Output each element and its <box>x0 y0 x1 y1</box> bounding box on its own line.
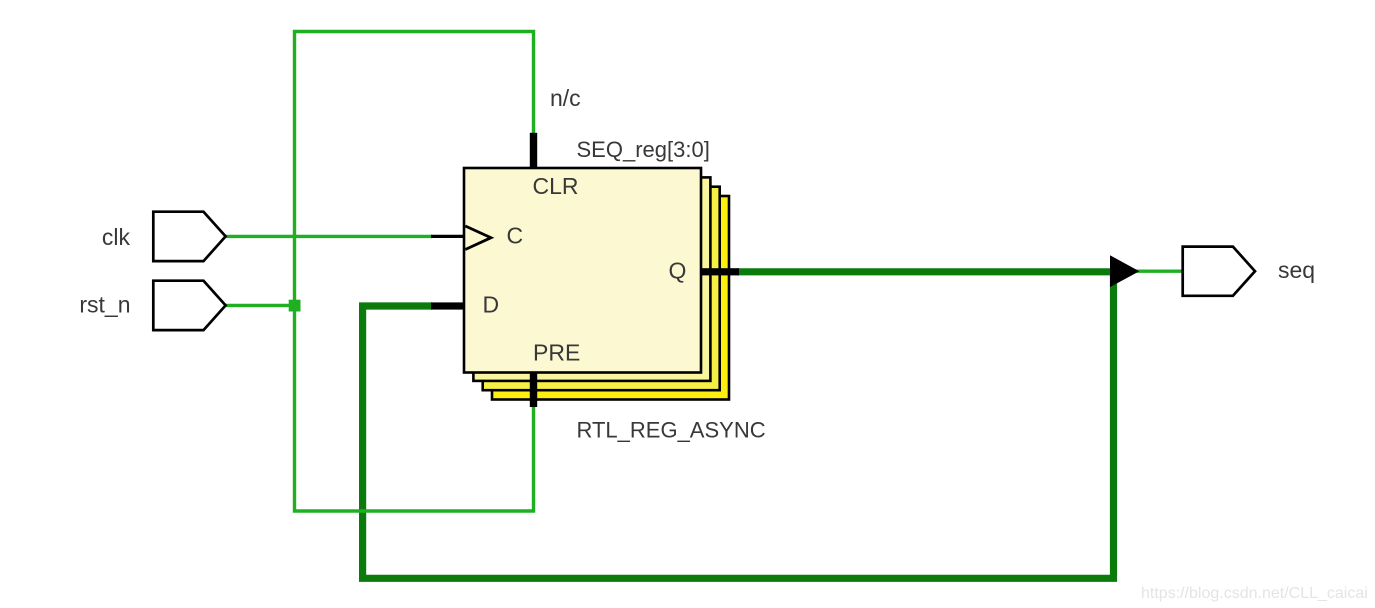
svg-text:CLR: CLR <box>533 173 579 199</box>
pin stub Q <box>700 268 739 275</box>
node junction rst_n <box>289 300 301 312</box>
output port seq <box>1183 247 1255 296</box>
input port clk <box>153 212 225 261</box>
pin stub D <box>431 302 465 309</box>
wire: seq arrow to port <box>1130 270 1182 273</box>
register stack layer 3 <box>483 187 720 391</box>
wire: rst_n port to junction <box>225 304 294 307</box>
svg-text:C: C <box>507 223 524 249</box>
register stack layer 4 (back) <box>492 196 729 400</box>
svg-text:clk: clk <box>102 224 131 250</box>
pin stub PRE <box>530 372 537 407</box>
arrow head seq <box>1110 255 1139 287</box>
register stack layer 2 <box>473 177 710 381</box>
svg-text:https://blog.csdn.net/CLL_caic: https://blog.csdn.net/CLL_caicai <box>1141 585 1368 602</box>
wire: clk net <box>225 235 432 238</box>
svg-text:rst_n: rst_n <box>79 292 130 318</box>
clock triangle marker <box>465 226 491 250</box>
svg-text:n/c: n/c <box>550 85 581 111</box>
svg-text:PRE: PRE <box>533 340 580 366</box>
svg-text:SEQ_reg[3:0]: SEQ_reg[3:0] <box>577 137 710 162</box>
svg-text:Q: Q <box>669 258 687 284</box>
wire: thick bus feedback Q to D <box>363 272 1114 579</box>
wire: net rst_n loop CLR to PRE <box>295 32 534 512</box>
pin stub C (thin) <box>431 235 464 238</box>
register SEQ_reg[3:0] RTL_REG_ASYNC body <box>464 168 701 373</box>
svg-text:D: D <box>483 292 500 318</box>
pin stub CLR <box>530 133 537 169</box>
svg-text:seq: seq <box>1278 257 1315 283</box>
svg-text:RTL_REG_ASYNC: RTL_REG_ASYNC <box>577 418 766 443</box>
input port rst_n <box>153 281 225 330</box>
